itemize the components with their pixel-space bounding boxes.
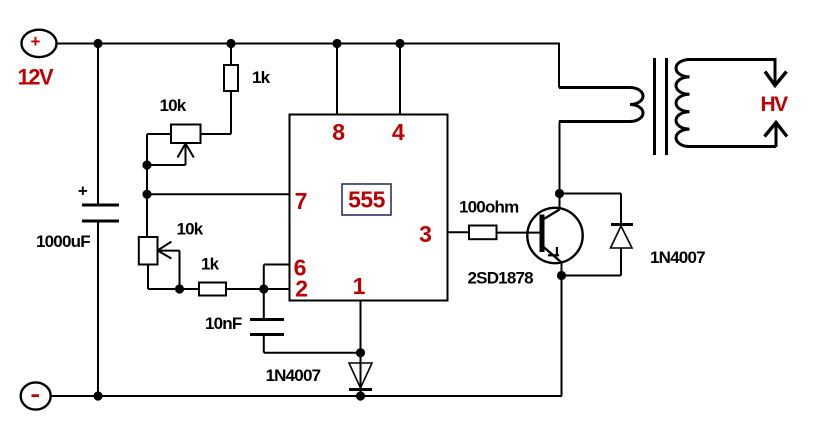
svg-text:100ohm: 100ohm [459, 198, 519, 217]
capacitor C1 1000uF plates [82, 204, 119, 207]
wire pin4 top [399, 44, 401, 115]
node junction top rail pin4 [396, 40, 403, 47]
wire pin8 top [336, 44, 338, 115]
555 label box [342, 184, 391, 215]
resistor R1 1k vertical [230, 44, 232, 66]
wire bottom rail [51, 395, 562, 397]
HV return arrow up [775, 124, 778, 147]
resistor R3 100ohm [469, 226, 497, 240]
svg-text:10k: 10k [177, 220, 204, 239]
wiper arrow VR1 [178, 144, 186, 158]
wire left branch down [146, 165, 148, 237]
wire emitter down [561, 263, 563, 397]
wire collector up [559, 122, 561, 210]
svg-text:1k: 1k [252, 68, 271, 87]
capacitor C2 10nF [263, 289, 265, 318]
wire pin 7 [147, 193, 290, 195]
wire left bus upper (12V to cap) [97, 44, 99, 205]
wire collector to diode D2 [560, 193, 622, 195]
wire pin 3 [448, 231, 470, 233]
node junction bottom rail cap [94, 392, 101, 399]
potentiometer VR1 10k [171, 125, 201, 144]
label - (battery negative) [32, 394, 40, 397]
node junction collector [556, 190, 563, 197]
battery - terminal [21, 382, 51, 409]
svg-text:+: + [31, 32, 41, 51]
battery + terminal [22, 30, 57, 57]
node junction pin7 branch [143, 191, 150, 198]
svg-text:7: 7 [295, 188, 308, 214]
node junction diode/rail [357, 392, 364, 399]
node junction emitter [558, 272, 565, 279]
transformer T1 secondary winding [676, 60, 776, 147]
transformer T1 core [653, 58, 656, 155]
svg-text:4: 4 [392, 119, 405, 145]
svg-text:555: 555 [348, 187, 386, 213]
transformer T1 primary winding [559, 88, 643, 122]
wire left bus lower (cap to bottom rail) [97, 222, 99, 396]
wire top rail [56, 43, 560, 45]
svg-text:1000uF: 1000uF [36, 232, 90, 251]
diode D1 1N4007 (bottom) [349, 363, 372, 388]
svg-text:12V: 12V [18, 65, 54, 90]
svg-text:2: 2 [295, 276, 308, 302]
IC U1 555 [290, 115, 448, 301]
HV output arrow down [774, 58, 777, 84]
emitter arrow Q1 [548, 254, 559, 256]
wire pin 1 [360, 301, 362, 397]
svg-text:3: 3 [419, 221, 432, 247]
resistor R2 1k horizontal [199, 283, 226, 296]
node junction pin2/6 [260, 285, 267, 292]
potentiometer VR2 10k [139, 237, 158, 265]
svg-text:HV: HV [761, 93, 789, 116]
diode D2 1N4007 (right) [611, 223, 633, 226]
wire rail to transformer [558, 44, 560, 88]
svg-text:8: 8 [332, 119, 345, 145]
wiper arrow VR2 [158, 242, 172, 251]
svg-text:1N4007: 1N4007 [650, 248, 705, 267]
node junction cap/diode [357, 349, 364, 356]
svg-text:+: + [78, 182, 88, 201]
node junction VR2 wiper [176, 285, 183, 292]
svg-text:2SD1878: 2SD1878 [468, 269, 534, 288]
node junction top rail 1k [227, 40, 234, 47]
svg-text:1N4007: 1N4007 [266, 366, 321, 385]
transistor Q1 2SD1878 [527, 208, 582, 263]
svg-text:10k: 10k [160, 96, 187, 115]
node junction top rail cap [94, 40, 101, 47]
svg-text:1k: 1k [201, 255, 220, 274]
node junction top rail pin8 [333, 40, 340, 47]
wire pin 2 [264, 288, 290, 290]
svg-text:1: 1 [353, 273, 366, 299]
svg-text:10nF: 10nF [205, 314, 242, 333]
wire pin 6 [263, 265, 265, 290]
node junction pot1 left [143, 161, 150, 168]
